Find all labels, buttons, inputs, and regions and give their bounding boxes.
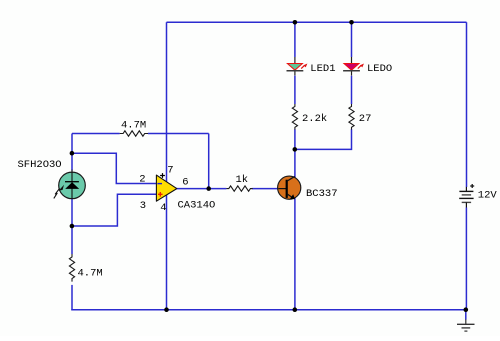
svg-text:1k: 1k: [236, 174, 249, 186]
svg-text:CA314O: CA314O: [178, 199, 216, 211]
svg-text:4: 4: [160, 202, 166, 214]
svg-text:12V: 12V: [478, 189, 498, 201]
svg-text:27: 27: [359, 113, 372, 125]
svg-text:7: 7: [167, 164, 173, 176]
svg-text:6: 6: [182, 176, 188, 188]
svg-text:3: 3: [140, 200, 146, 212]
svg-text:4.7M: 4.7M: [78, 268, 103, 280]
svg-text:2.2k: 2.2k: [302, 113, 327, 125]
svg-text:4.7M: 4.7M: [121, 120, 146, 132]
svg-text:LEDO: LEDO: [367, 63, 392, 75]
svg-text:SFH2O3O: SFH2O3O: [18, 159, 62, 171]
svg-text:BC337: BC337: [306, 188, 338, 200]
svg-text:LED1: LED1: [310, 63, 335, 75]
svg-text:2: 2: [139, 173, 145, 185]
